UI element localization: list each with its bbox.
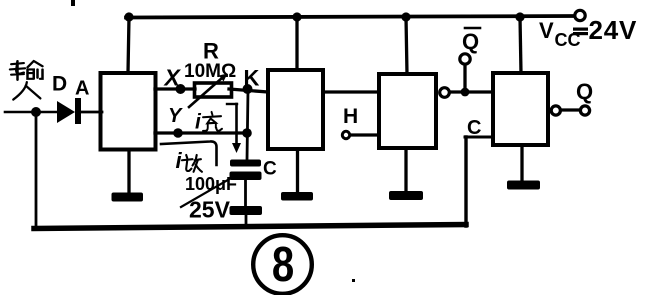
svg-text:10MΩ: 10MΩ bbox=[184, 61, 236, 82]
svg-text:Y: Y bbox=[168, 105, 183, 127]
svg-text:8: 8 bbox=[272, 237, 294, 292]
svg-text:C: C bbox=[263, 159, 277, 180]
svg-text:Q: Q bbox=[462, 29, 479, 54]
svg-text:100μF: 100μF bbox=[185, 174, 237, 194]
svg-text:X: X bbox=[163, 65, 182, 91]
svg-text:R: R bbox=[203, 39, 219, 64]
svg-text:Q: Q bbox=[576, 79, 593, 104]
svg-text:H: H bbox=[343, 105, 358, 128]
svg-text:i: i bbox=[195, 111, 202, 134]
svg-text:V: V bbox=[539, 18, 554, 43]
svg-text:K: K bbox=[244, 66, 260, 91]
svg-text:A: A bbox=[75, 78, 89, 100]
svg-text:24V: 24V bbox=[589, 15, 638, 45]
svg-text:25V: 25V bbox=[189, 197, 231, 223]
svg-text:D: D bbox=[52, 73, 67, 96]
svg-text:C: C bbox=[467, 117, 481, 139]
